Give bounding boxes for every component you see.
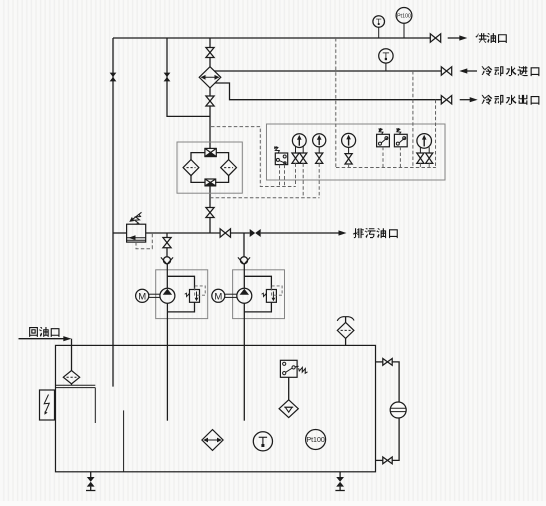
wire pump1 branch: [166, 233, 168, 237]
PG1 right valve sensing: [302, 163, 304, 197]
valve bypass left (closed): [110, 73, 117, 77]
filter loop bottom right: [215, 175, 228, 182]
pressure switch PS1: [275, 153, 287, 165]
label 冷却水出口: [482, 95, 493, 105]
drain valve right: [339, 472, 341, 477]
pressure switch PS2: [377, 134, 390, 147]
valve drain (closed): [250, 229, 256, 237]
instrument panel enclosure: [267, 124, 446, 180]
valve drain isolation (open): [220, 229, 225, 237]
level gauge pipe: [392, 362, 399, 461]
level gauge top stub: [376, 361, 383, 363]
label 回油口: [29, 327, 38, 337]
filter loop bottom left: [191, 175, 205, 182]
PG1 left valve sensing: [295, 163, 297, 186]
PG4 sensing stubs: [419, 163, 421, 167]
heat exchanger (cooler): [199, 67, 221, 88]
pump2 relief pilot box: [272, 286, 283, 295]
filter loop right: [216, 153, 229, 160]
PG4 stems: [419, 147, 421, 153]
valve supply outlet: [430, 34, 435, 42]
wire drain out: [261, 232, 330, 234]
filter element right: [221, 160, 237, 176]
wire bypass left: [112, 38, 114, 233]
flow arrow drain: [330, 232, 340, 234]
pump unit 2 enclosure: [233, 270, 285, 319]
wire riser 6: [209, 218, 211, 234]
wire bypass mid: [167, 38, 210, 116]
PG1 stems: [295, 146, 297, 153]
valve bypass mid (closed): [164, 73, 171, 77]
wire pump1 suction: [166, 303, 168, 420]
valve above cooler: [206, 48, 214, 53]
PS2 sensing stub: [382, 147, 384, 168]
PG1 valve right: [300, 153, 307, 158]
relief valve pilot line: [136, 234, 152, 249]
sensor Pt100 on supply line: [396, 7, 412, 23]
air breather: [345, 338, 347, 345]
valve cooling inlet: [441, 67, 446, 75]
pressure switch PS3: [394, 134, 407, 147]
tank weir: [94, 388, 96, 423]
tank baffle 2: [123, 410, 125, 471]
sensing line from cooling outlet: [435, 100, 437, 168]
valve below filter: [206, 208, 214, 213]
flow arrow supply: [448, 37, 461, 39]
wire riser 3: [209, 88, 211, 96]
motor 1: [136, 289, 149, 302]
check valve pump2: [240, 257, 247, 264]
level gauge bottom valve: [383, 457, 388, 464]
wire riser 2: [209, 58, 211, 67]
sensor Pt100 (tank): [306, 430, 326, 450]
pump1 relief valve: [190, 290, 200, 303]
svg-text:Pt100: Pt100: [397, 13, 411, 19]
sensing bus: [336, 167, 436, 169]
return filter: [63, 371, 79, 384]
pump 1: [160, 288, 175, 303]
level gauge sight glass: [390, 402, 406, 418]
wire pump2 discharge: [243, 264, 245, 289]
PG2 valve sensing: [318, 163, 320, 197]
level gauge bottom stub: [376, 459, 383, 461]
pump1 relief loop: [167, 276, 194, 289]
label 冷却水进口: [482, 66, 493, 76]
level indicator (tank): [202, 430, 223, 451]
motor 2: [212, 289, 225, 302]
pressure gauge PG1: [292, 134, 306, 148]
check valve pump1: [163, 257, 170, 264]
pump 2: [237, 288, 252, 303]
wire relief drain: [112, 233, 114, 387]
svg-text:Pt100: Pt100: [306, 437, 324, 444]
PS1 sensing leads: [279, 165, 281, 187]
pressure gauge PG4: [417, 134, 432, 149]
level gauge top valve: [383, 359, 388, 366]
filter unit enclosure: [177, 142, 242, 193]
electric heater: [40, 390, 55, 420]
level switch: [280, 360, 297, 377]
wire riser top: [209, 38, 211, 48]
relief valve RV body: [127, 224, 146, 242]
pressure gauge PG2: [313, 134, 326, 147]
filter loop left: [191, 153, 205, 160]
pump2 relief valve: [266, 290, 276, 303]
filter element left: [183, 160, 199, 176]
wire pump1 branch2: [166, 248, 168, 257]
pressure gauge PG3: [342, 133, 356, 147]
tank baffle plate: [56, 384, 96, 386]
changeover valve top: [205, 148, 216, 156]
changeover valve bottom: [205, 179, 216, 186]
wire cooling water inlet: [214, 70, 441, 72]
wire return drop: [71, 339, 73, 371]
level switch float link: [288, 377, 290, 400]
PG4 valve right: [426, 153, 433, 158]
valve pump1 isolation: [163, 238, 171, 243]
svg-text:M: M: [138, 291, 146, 302]
sensing line from cooling inlet: [412, 71, 414, 168]
PG2 stem: [318, 147, 320, 153]
PG3 sensing stub: [348, 164, 350, 168]
wire riser 4: [209, 106, 211, 148]
wire pump2 branch: [243, 233, 245, 257]
valve cooling outlet: [441, 96, 446, 104]
wire header left: [113, 232, 127, 234]
PG3 stem: [348, 147, 350, 153]
wire header mid: [146, 232, 221, 234]
sensing line from supply: [335, 38, 337, 168]
float: [279, 400, 298, 418]
wire pump2 suction: [243, 303, 245, 420]
pump unit 1 enclosure: [156, 270, 208, 319]
thermometer on supply line: [373, 16, 385, 28]
flow arrow cooling outlet: [460, 99, 471, 101]
pump2 relief loop: [244, 276, 271, 289]
oil tank: [56, 345, 376, 471]
label 供油口: [476, 33, 487, 43]
wire riser 5: [209, 186, 211, 208]
riser sensing tap upper: [211, 127, 296, 187]
thermometer (tank): [253, 432, 272, 451]
svg-text:M: M: [214, 291, 222, 302]
wire cooling water outlet: [215, 83, 441, 100]
thermometer cooling inlet: [379, 49, 393, 63]
PG1 valve left: [292, 153, 299, 158]
label 排污油口: [353, 228, 364, 238]
drain valve left: [90, 472, 92, 477]
wire return line: [19, 338, 64, 340]
flow arrow cooling inlet: [466, 70, 477, 72]
PG3 valve: [345, 154, 352, 159]
PG2 valve: [316, 153, 323, 158]
wire pump1 discharge: [166, 264, 168, 289]
PG4 valve left: [417, 153, 424, 158]
pump1 relief pilot box: [195, 286, 206, 295]
PS3 sensing stub: [399, 147, 401, 168]
wire header mid2: [230, 232, 250, 234]
riser sensing tap lower: [210, 197, 320, 199]
relief valve spring: [135, 214, 141, 224]
wire supply header: [113, 37, 431, 39]
valve below cooler: [206, 96, 214, 101]
wire return stub: [71, 384, 73, 385]
